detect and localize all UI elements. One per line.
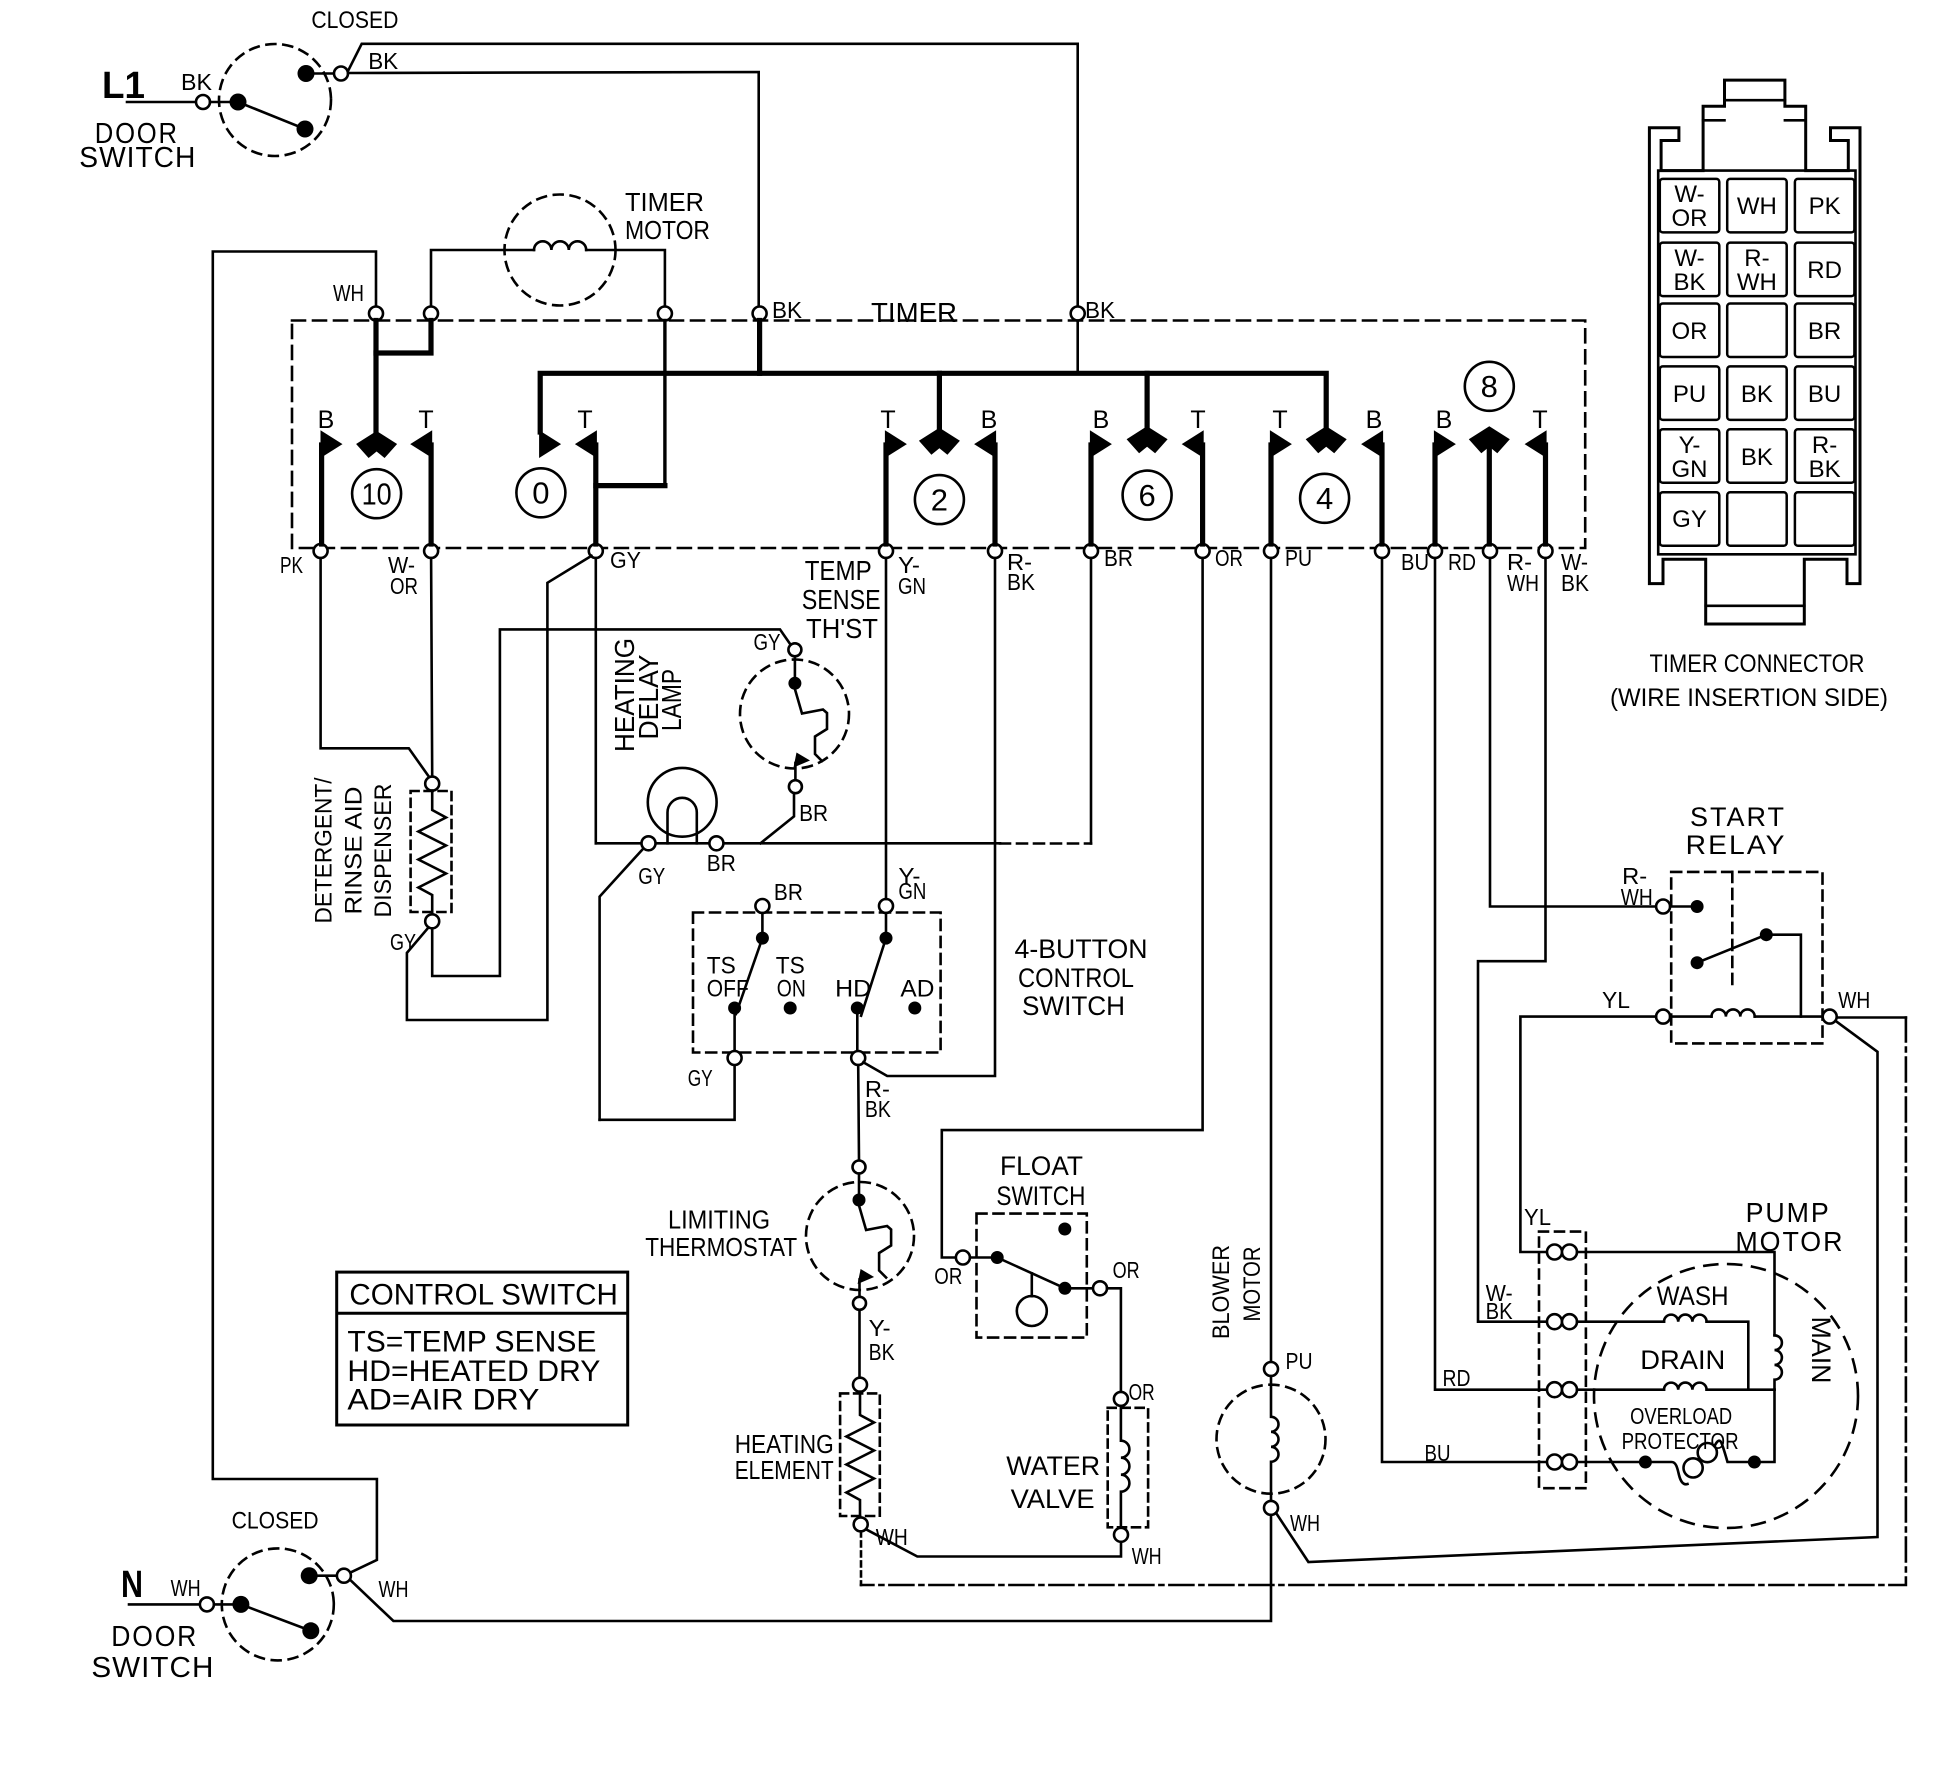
- svg-text:FLOAT: FLOAT: [1000, 1151, 1083, 1181]
- svg-text:CLOSED: CLOSED: [232, 1508, 319, 1535]
- svg-text:WATER: WATER: [1006, 1451, 1100, 1481]
- svg-text:GY: GY: [1672, 506, 1707, 533]
- svg-text:BR: BR: [1104, 545, 1133, 571]
- svg-text:YL: YL: [1602, 987, 1630, 1013]
- svg-text:AD: AD: [900, 976, 934, 1003]
- svg-text:2: 2: [931, 482, 948, 517]
- svg-text:SWITCH: SWITCH: [996, 1181, 1085, 1211]
- svg-text:SWITCH: SWITCH: [79, 142, 196, 174]
- svg-text:BK: BK: [1085, 297, 1116, 323]
- svg-text:RD: RD: [1807, 257, 1842, 284]
- svg-text:4: 4: [1316, 481, 1333, 516]
- svg-text:GN: GN: [898, 878, 926, 904]
- svg-text:BK: BK: [869, 1339, 896, 1365]
- svg-text:0: 0: [532, 476, 549, 511]
- svg-text:RD: RD: [1448, 549, 1476, 575]
- svg-text:W-: W-: [1674, 245, 1704, 272]
- svg-text:T: T: [1272, 406, 1287, 434]
- svg-text:T: T: [1190, 406, 1205, 434]
- svg-text:BR: BR: [799, 800, 828, 826]
- svg-text:BK: BK: [1809, 456, 1841, 483]
- svg-text:R-: R-: [1812, 432, 1837, 459]
- svg-text:BR: BR: [1808, 318, 1841, 345]
- svg-text:6: 6: [1138, 478, 1155, 513]
- svg-text:4-BUTTON: 4-BUTTON: [1015, 934, 1148, 964]
- svg-text:B: B: [1436, 406, 1453, 434]
- svg-text:OR: OR: [1672, 205, 1708, 232]
- svg-text:Y-: Y-: [869, 1315, 891, 1341]
- svg-text:VALVE: VALVE: [1011, 1484, 1095, 1514]
- svg-text:GY: GY: [688, 1065, 713, 1091]
- svg-text:DISPENSER: DISPENSER: [370, 784, 397, 918]
- svg-text:BR: BR: [707, 850, 736, 876]
- svg-text:BR: BR: [774, 879, 803, 905]
- svg-text:WH: WH: [1507, 570, 1539, 596]
- svg-text:HD: HD: [835, 976, 871, 1003]
- svg-text:DETERGENT/: DETERGENT/: [311, 777, 338, 923]
- svg-text:PU: PU: [1673, 381, 1706, 408]
- svg-text:PU: PU: [1285, 545, 1312, 571]
- svg-text:PROTECTOR: PROTECTOR: [1622, 1428, 1739, 1454]
- svg-text:WH: WH: [876, 1524, 908, 1550]
- svg-text:T: T: [880, 406, 895, 434]
- svg-text:CLOSED: CLOSED: [311, 7, 398, 34]
- svg-text:WH: WH: [1290, 1510, 1320, 1536]
- svg-text:T: T: [1532, 406, 1547, 434]
- svg-text:PK: PK: [1809, 193, 1841, 220]
- svg-text:OR: OR: [1672, 318, 1708, 345]
- svg-text:SWITCH: SWITCH: [1022, 991, 1125, 1021]
- svg-text:L1: L1: [102, 65, 145, 107]
- svg-text:Y-: Y-: [1679, 432, 1701, 459]
- svg-text:OR: OR: [390, 573, 418, 599]
- svg-text:DOOR: DOOR: [111, 1621, 198, 1653]
- svg-text:WH: WH: [379, 1576, 409, 1602]
- svg-text:GY: GY: [390, 929, 416, 955]
- svg-text:B: B: [318, 406, 335, 434]
- svg-text:WH: WH: [171, 1575, 201, 1601]
- svg-text:GN: GN: [898, 573, 926, 599]
- svg-text:DRAIN: DRAIN: [1640, 1345, 1725, 1375]
- svg-text:MOTOR: MOTOR: [1239, 1247, 1266, 1322]
- svg-text:GY: GY: [638, 863, 665, 889]
- svg-text:PK: PK: [280, 552, 303, 578]
- svg-text:WH: WH: [1621, 884, 1653, 910]
- svg-text:OR: OR: [1113, 1257, 1140, 1283]
- svg-text:TH'ST: TH'ST: [806, 613, 878, 644]
- svg-text:ELEMENT: ELEMENT: [735, 1455, 834, 1485]
- svg-text:(WIRE INSERTION SIDE): (WIRE INSERTION SIDE): [1610, 684, 1888, 712]
- svg-text:OR: OR: [1215, 545, 1243, 571]
- svg-text:BK: BK: [1741, 444, 1773, 471]
- svg-text:YL: YL: [1524, 1204, 1551, 1230]
- svg-text:W-: W-: [1674, 181, 1704, 208]
- svg-text:LAMP: LAMP: [656, 669, 687, 731]
- svg-text:N: N: [121, 1564, 143, 1606]
- svg-text:BK: BK: [772, 297, 803, 323]
- svg-text:MOTOR: MOTOR: [625, 215, 710, 245]
- svg-text:B: B: [1093, 406, 1110, 434]
- svg-text:WH: WH: [333, 280, 364, 306]
- svg-text:MAIN: MAIN: [1806, 1317, 1836, 1384]
- svg-text:T: T: [418, 406, 433, 434]
- svg-text:GY: GY: [754, 629, 781, 655]
- svg-text:BLOWER: BLOWER: [1208, 1245, 1235, 1339]
- svg-text:THERMOSTAT: THERMOSTAT: [645, 1232, 797, 1262]
- svg-text:ON: ON: [777, 976, 806, 1003]
- svg-text:OVERLOAD: OVERLOAD: [1630, 1403, 1732, 1429]
- svg-text:BU: BU: [1425, 1440, 1451, 1466]
- svg-text:B: B: [1366, 406, 1383, 434]
- svg-text:SWITCH: SWITCH: [91, 1652, 214, 1684]
- svg-text:BK: BK: [1007, 569, 1036, 595]
- svg-text:BK: BK: [1486, 1298, 1514, 1324]
- svg-text:BK: BK: [181, 69, 213, 95]
- svg-text:AD=AIR DRY: AD=AIR DRY: [347, 1383, 539, 1416]
- svg-text:BU: BU: [1808, 381, 1841, 408]
- svg-text:WASH: WASH: [1657, 1281, 1729, 1311]
- svg-text:R-: R-: [1744, 245, 1769, 272]
- svg-text:WH: WH: [1838, 987, 1870, 1013]
- svg-text:TS=TEMP SENSE: TS=TEMP SENSE: [347, 1326, 596, 1359]
- svg-text:BK: BK: [1673, 269, 1705, 296]
- svg-text:BK: BK: [1741, 381, 1773, 408]
- svg-text:MOTOR: MOTOR: [1735, 1226, 1844, 1257]
- svg-text:WH: WH: [1132, 1543, 1162, 1569]
- svg-text:BK: BK: [865, 1096, 892, 1122]
- svg-text:B: B: [981, 406, 998, 434]
- svg-text:TIMER: TIMER: [871, 297, 957, 328]
- svg-text:WH: WH: [1737, 269, 1777, 296]
- svg-text:RELAY: RELAY: [1686, 830, 1787, 860]
- svg-text:OFF: OFF: [707, 976, 749, 1003]
- svg-text:8: 8: [1481, 369, 1498, 404]
- svg-text:LIMITING: LIMITING: [668, 1205, 770, 1235]
- svg-text:T: T: [577, 406, 592, 434]
- svg-text:OR: OR: [1129, 1379, 1155, 1405]
- svg-text:SENSE: SENSE: [802, 584, 881, 615]
- svg-text:BK: BK: [1561, 570, 1590, 596]
- svg-text:OR: OR: [934, 1263, 962, 1289]
- svg-text:CONTROL: CONTROL: [1018, 963, 1134, 993]
- svg-text:BU: BU: [1401, 549, 1429, 575]
- svg-text:WH: WH: [1737, 193, 1777, 220]
- svg-text:TIMER: TIMER: [625, 187, 704, 217]
- svg-text:GY: GY: [610, 547, 641, 573]
- svg-text:START: START: [1690, 802, 1786, 832]
- svg-text:RINSE AID: RINSE AID: [340, 787, 367, 915]
- svg-text:BK: BK: [368, 48, 399, 74]
- svg-text:CONTROL SWITCH: CONTROL SWITCH: [349, 1279, 618, 1312]
- svg-text:RD: RD: [1443, 1365, 1471, 1391]
- svg-text:PUMP: PUMP: [1746, 1197, 1831, 1228]
- svg-text:PU: PU: [1286, 1348, 1313, 1374]
- svg-text:TIMER CONNECTOR: TIMER CONNECTOR: [1650, 650, 1865, 678]
- svg-text:GN: GN: [1672, 456, 1708, 483]
- svg-text:10: 10: [362, 477, 392, 512]
- svg-text:TEMP: TEMP: [805, 555, 872, 586]
